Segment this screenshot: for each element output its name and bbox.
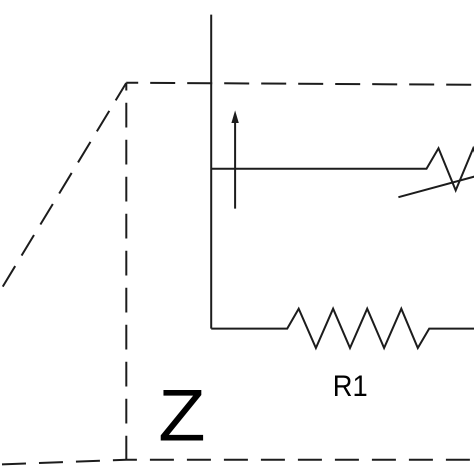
dashed boundary diagonal xyxy=(0,83,126,301)
dashed boundary bottom xyxy=(0,460,474,465)
wire top with variable resistor R2 (cropped) xyxy=(211,148,474,190)
wire vertical left branch xyxy=(210,15,212,329)
potentiometer wiper arrow line (cropped) xyxy=(398,176,474,197)
svg-text:R1: R1 xyxy=(333,370,368,403)
wire bottom with resistor R1 xyxy=(211,309,474,348)
current arrow shaft xyxy=(234,122,236,209)
current arrow head xyxy=(231,110,238,123)
dashed boundary top xyxy=(126,83,474,85)
svg-text:Z: Z xyxy=(158,375,205,457)
dashed boundary vertical xyxy=(125,83,127,460)
